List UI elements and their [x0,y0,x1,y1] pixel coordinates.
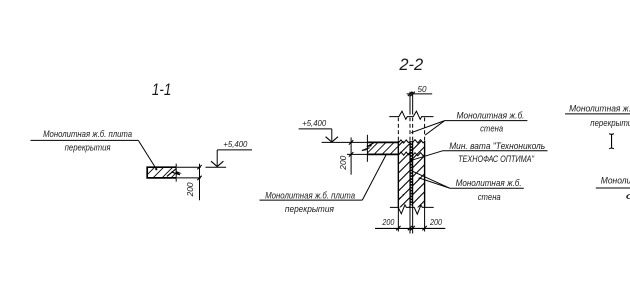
svg-text:Монолитная ж.б.: Монолитная ж.б. [601,175,630,186]
extension line top [177,166,201,168]
tick marks [197,165,201,169]
slab cross-section 1-1 (monolithic r.c. slab) [144,167,182,178]
slab cross-section 2-2 [366,142,402,154]
wall bottom break line (2-2) [390,205,434,214]
leader lines (bottom wall label) [413,171,450,188]
leader line to insulation [411,151,442,161]
svg-text:Монолитная ж.б. плита: Монолитная ж.б. плита [265,190,355,201]
break zigzag (1-1) [167,169,176,177]
left wall leaf hatch [398,134,410,218]
leader dot (bottom wall label) [419,177,421,179]
label: Мин. вата Технониколь ТЕХНОФАС ОПТИМА [449,140,545,164]
svg-text:200: 200 [429,217,442,227]
dimension 200 (slab thickness 1-1) [177,164,202,201]
hidden wall edges above slab (dashed) [398,118,424,141]
dimension line [199,164,201,201]
ticks bottom dim [396,226,427,230]
svg-text:200: 200 [338,155,348,170]
svg-text:200: 200 [185,182,195,197]
wall edges (solid) [397,141,399,208]
bottom dimension line (2-2) [375,227,445,229]
bottom dimension extension lines (2-2) [398,207,424,233]
axis dash-dot mark in left leaf [403,194,404,195]
leader underline (2-2 slab label) [260,199,363,201]
svg-text:Монолитная ж.б.: Монолитная ж.б. [457,109,525,120]
insulation extension lines above (50 dim) [409,92,411,115]
insulation layer edges [409,141,411,208]
svg-text:Монолитная ж.б.: Монолитная ж.б. [569,102,630,113]
dimension 50 (insulation) [407,84,433,96]
svg-text:стена: стена [478,191,501,202]
svg-text:+5,400: +5,400 [223,139,247,149]
svg-text:200: 200 [382,217,395,227]
svg-text:перекрытия: перекрытия [285,203,334,214]
leader line to slab bottom (2-2) [362,155,386,201]
label: Монолитная ж.б. стена (bottom) [456,177,522,202]
label: Монолитная ж.б. плита перекрытия (leader text, section 1-1) [43,128,132,153]
svg-text:ст: ст [626,190,630,201]
svg-text:перекрытия: перекрытия [65,142,111,153]
svg-text:+5,400: +5,400 [302,118,326,128]
leader line to slab (1-1) [138,140,156,169]
label: Монолитная ж.б. плита перекрытия (2-2, lower left) [265,190,355,214]
break line at slab left end (2-2) [366,135,368,162]
svg-text:1-1: 1-1 [152,80,172,99]
svg-text:стена: стена [480,123,503,134]
svg-text:ТЕХНОФАС ОПТИМА": ТЕХНОФАС ОПТИМА" [458,153,535,164]
elevation mark +5,400 (2-2) [299,118,338,142]
dimension 200 (slab thickness 2-2) [338,137,353,174]
extension line bottom [177,177,201,179]
break line at slab right end (1-1) [175,164,177,182]
leader underline (1-1 label) [31,139,139,141]
wavy joint lines at slab bottom level in wall [398,152,410,155]
leader dot on slab (1-1) [155,168,157,170]
break zigzag (2-2 slab) [367,143,374,147]
svg-text:перекрытия: перекрытия [590,117,630,128]
label: Монолитная ж.б. стена (clipped bottom right) [601,175,630,201]
label: Монолитная ж.б. перекрытия (clipped top right) [569,102,630,128]
insulation dots (mineral wool) [410,142,412,205]
text cursor I-beam [609,134,614,149]
elevation mark +5,400 (1-1) [206,139,253,167]
leader dot on insulation [410,159,413,162]
right wall leaf hatch [413,138,425,222]
label: Монолитная ж.б. стена (top) [457,109,525,133]
svg-text:50: 50 [418,84,427,94]
svg-text:Монолитная ж.б.: Монолитная ж.б. [456,177,522,188]
wavy joint lines at slab top level in wall [398,140,410,143]
svg-text:Мин. вата "Технониколь: Мин. вата "Технониколь [449,140,545,151]
svg-text:Монолитная ж.б. плита: Монолитная ж.б. плита [43,128,132,139]
slab top edge extension / level line (2-2) [322,141,368,143]
leader lines (top wall label) [411,121,445,133]
wall top break line (2-2) [389,111,433,119]
slab bottom edge extension (2-2) [347,153,367,155]
svg-text:2-2: 2-2 [398,55,423,74]
